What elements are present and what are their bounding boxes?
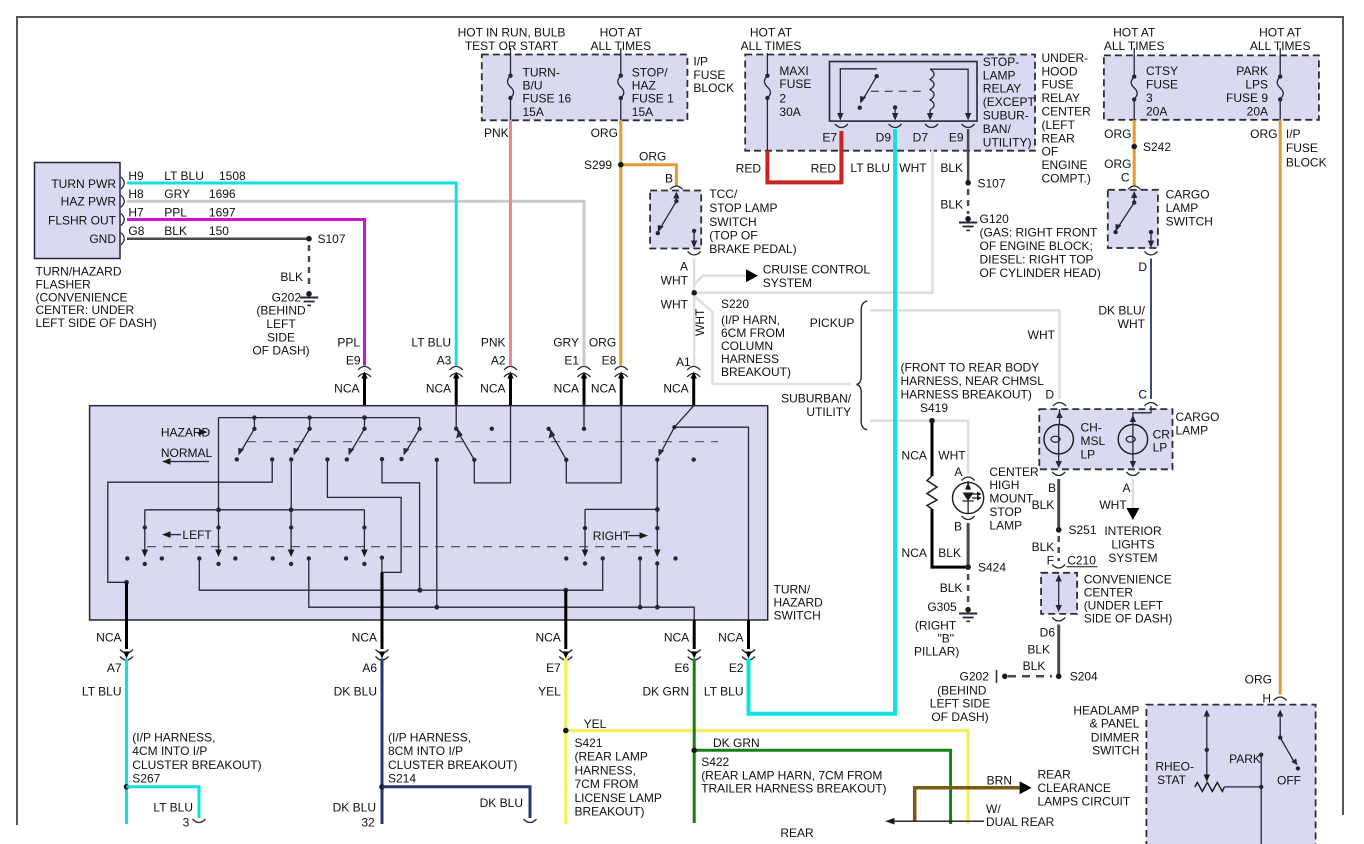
wire BLK lamp B to S424 xyxy=(940,523,1007,605)
wire WHT TCC to junction and cruise control xyxy=(691,259,870,366)
svg-text:RIGHT: RIGHT xyxy=(593,529,631,543)
svg-text:SYSTEM: SYSTEM xyxy=(763,276,812,290)
left contact dots xyxy=(125,556,348,560)
svg-text:PICKUP: PICKUP xyxy=(810,316,855,330)
svg-text:MSL: MSL xyxy=(1081,434,1106,448)
svg-text:TEST OR START: TEST OR START xyxy=(465,39,559,53)
wire WHT junction to S419 branch (S220 path) xyxy=(693,296,851,384)
svg-text:TRAILER HARNESS BREAKOUT): TRAILER HARNESS BREAKOUT) xyxy=(701,782,886,796)
svg-text:TURN/: TURN/ xyxy=(774,582,811,596)
svg-text:"B": "B" xyxy=(938,631,955,645)
svg-text:E7: E7 xyxy=(822,130,837,144)
svg-text:CARGO: CARGO xyxy=(1176,410,1220,424)
svg-text:HOT AT: HOT AT xyxy=(1259,26,1302,40)
svg-text:(LEFT: (LEFT xyxy=(1042,118,1076,132)
svg-text:PPL: PPL xyxy=(337,335,360,349)
svg-text:20A: 20A xyxy=(1247,104,1268,118)
ground G202 (S204) xyxy=(930,659,1052,724)
svg-text:E1: E1 xyxy=(564,354,579,368)
svg-text:ORG: ORG xyxy=(1250,127,1277,141)
svg-text:OFF: OFF xyxy=(1277,774,1301,788)
CHMSL / cargo lamp assembly box xyxy=(1039,387,1219,469)
svg-text:LEFT SIDE OF DASH): LEFT SIDE OF DASH) xyxy=(36,316,157,330)
svg-text:STOP/: STOP/ xyxy=(632,65,668,79)
svg-text:DK BLU/: DK BLU/ xyxy=(1098,303,1145,317)
svg-text:FUSE 1: FUSE 1 xyxy=(632,91,674,105)
wire WHT pickup to CHMSL D xyxy=(870,310,1060,399)
svg-text:UNDER-: UNDER- xyxy=(1042,51,1089,65)
wire DK GRN E6 to S422 xyxy=(691,659,950,841)
svg-text:WHT: WHT xyxy=(1099,498,1127,512)
svg-text:S204: S204 xyxy=(1070,670,1098,684)
wire DK BLU/WHT cargo switch to CHMSL C xyxy=(1098,259,1151,400)
svg-text:NCA: NCA xyxy=(334,382,359,396)
svg-text:FLSHR OUT: FLSHR OUT xyxy=(48,214,117,228)
switch lever 4 xyxy=(399,418,422,462)
ground G120 xyxy=(959,212,1101,280)
wire LT BLU flasher H9 to A3 xyxy=(127,183,456,366)
svg-text:S242: S242 xyxy=(1143,140,1171,154)
svg-text:CENTER: CENTER xyxy=(1084,586,1134,600)
top bus wire xyxy=(219,415,420,551)
svg-text:WHT: WHT xyxy=(693,308,707,336)
svg-text:HAZARD: HAZARD xyxy=(774,595,824,609)
svg-text:GND: GND xyxy=(89,232,116,246)
svg-text:S424: S424 xyxy=(978,560,1006,574)
svg-text:PNK: PNK xyxy=(481,335,506,349)
svg-text:H7: H7 xyxy=(128,206,144,220)
bottom pin connector A7 xyxy=(82,620,133,699)
svg-text:SWITCH: SWITCH xyxy=(1092,744,1139,758)
svg-text:COMPT.): COMPT.) xyxy=(1042,172,1091,186)
switch lever 3 xyxy=(345,418,385,462)
svg-text:15A: 15A xyxy=(632,105,653,119)
bottom pin connector E2 xyxy=(704,620,755,699)
svg-text:BLK: BLK xyxy=(940,198,963,212)
dashed selector line top xyxy=(247,441,718,443)
relay pin connectors E7 D9 D7 E9 xyxy=(736,124,975,176)
svg-text:HARNESS,: HARNESS, xyxy=(575,763,636,777)
svg-text:A2: A2 xyxy=(491,354,506,368)
switch lever 1 xyxy=(235,418,275,462)
svg-text:RELAY: RELAY xyxy=(983,82,1021,96)
svg-text:CRUISE CONTROL: CRUISE CONTROL xyxy=(763,263,871,277)
svg-text:OF CYLINDER HEAD): OF CYLINDER HEAD) xyxy=(980,266,1101,280)
svg-text:WHT: WHT xyxy=(938,449,966,463)
svg-text:E8: E8 xyxy=(602,354,617,368)
svg-text:A: A xyxy=(1122,481,1130,495)
svg-text:A: A xyxy=(954,465,962,479)
svg-text:NCA: NCA xyxy=(902,546,927,560)
svg-text:BRAKE PEDAL): BRAKE PEDAL) xyxy=(709,242,796,256)
pin exits inside box xyxy=(127,572,566,620)
svg-text:ORG: ORG xyxy=(1104,157,1131,171)
svg-text:(I/P HARNESS,: (I/P HARNESS, xyxy=(132,731,215,745)
svg-text:BLK: BLK xyxy=(280,270,303,284)
svg-text:BREAKOUT): BREAKOUT) xyxy=(575,805,645,819)
svg-text:B: B xyxy=(665,171,673,185)
svg-text:WHT: WHT xyxy=(661,298,689,312)
bottom pin connector A6 xyxy=(334,620,389,699)
link wire U4 (A2) xyxy=(474,406,510,483)
wire BLK relay E9 to S107 xyxy=(940,129,1006,214)
svg-text:CR: CR xyxy=(1153,427,1171,441)
rheostat xyxy=(1155,710,1261,792)
svg-text:PNK: PNK xyxy=(484,126,509,140)
resistor NCA S419 to S424 xyxy=(902,423,969,567)
svg-text:CTSY: CTSY xyxy=(1146,64,1178,78)
wire BLK flasher G8 to S107 xyxy=(127,232,346,289)
wire WHT suburban to S419 to lamp A xyxy=(870,361,1044,474)
svg-text:H9: H9 xyxy=(128,169,144,183)
svg-text:S422: S422 xyxy=(701,755,729,769)
svg-text:6CM FROM: 6CM FROM xyxy=(721,326,785,340)
svg-text:20A: 20A xyxy=(1146,104,1167,118)
svg-text:HARNESS: HARNESS xyxy=(721,352,779,366)
svg-text:S267: S267 xyxy=(132,771,160,785)
brace pickup/suburban xyxy=(781,301,867,430)
top pin connector E9 xyxy=(334,335,371,405)
svg-text:HIGH: HIGH xyxy=(989,478,1019,492)
svg-text:G8: G8 xyxy=(128,224,144,238)
svg-text:TURN PWR: TURN PWR xyxy=(51,177,116,191)
svg-text:DK BLU: DK BLU xyxy=(334,685,377,699)
svg-text:E9: E9 xyxy=(949,130,964,144)
svg-text:HOT IN RUN, BULB: HOT IN RUN, BULB xyxy=(458,26,566,40)
svg-text:LAMP: LAMP xyxy=(1166,201,1199,215)
svg-text:C: C xyxy=(1138,387,1147,401)
svg-text:LT BLU: LT BLU xyxy=(411,335,451,349)
svg-text:ENGINE: ENGINE xyxy=(1042,158,1088,172)
svg-text:SWITCH: SWITCH xyxy=(709,215,756,229)
svg-text:BLK: BLK xyxy=(1032,498,1055,512)
svg-text:D6: D6 xyxy=(1040,626,1056,640)
svg-text:HAZ: HAZ xyxy=(632,78,656,92)
switch lever 2 xyxy=(289,418,330,462)
svg-text:HOT AT: HOT AT xyxy=(1113,26,1156,40)
wire ORG fuse 1 to E8, S299 branch to TCC B xyxy=(584,120,676,365)
svg-text:UTILITY): UTILITY) xyxy=(983,135,1032,149)
svg-text:NCA: NCA xyxy=(96,631,121,645)
svg-text:D: D xyxy=(1045,387,1054,401)
svg-text:(UNDER LEFT: (UNDER LEFT xyxy=(1084,599,1164,613)
svg-text:WHT: WHT xyxy=(1028,328,1056,342)
svg-text:S107: S107 xyxy=(978,176,1006,190)
center high mount stop lamp (LED) xyxy=(953,465,1040,534)
svg-text:G202: G202 xyxy=(272,290,302,304)
turn/hazard switch box xyxy=(90,406,824,623)
svg-text:LICENSE LAMP: LICENSE LAMP xyxy=(575,791,662,805)
svg-text:HAZ PWR: HAZ PWR xyxy=(61,195,117,209)
svg-text:BLK: BLK xyxy=(940,161,963,175)
svg-text:DK GRN: DK GRN xyxy=(643,685,690,699)
svg-text:DIESEL: RIGHT TOP: DIESEL: RIGHT TOP xyxy=(980,253,1094,267)
svg-text:ALL TIMES: ALL TIMES xyxy=(741,39,802,53)
svg-text:NCA: NCA xyxy=(718,631,743,645)
svg-text:CENTER: CENTER xyxy=(1042,105,1092,119)
svg-text:NCA: NCA xyxy=(902,449,927,463)
svg-text:WHT: WHT xyxy=(661,273,689,287)
arrow w/ dual rear xyxy=(885,802,1055,829)
svg-text:NORMAL: NORMAL xyxy=(161,446,213,460)
ground G202 (flasher) xyxy=(252,290,318,357)
svg-text:A1: A1 xyxy=(676,355,691,369)
top pin connector E1 xyxy=(553,335,590,405)
svg-text:PARK: PARK xyxy=(1229,752,1261,766)
svg-text:NCA: NCA xyxy=(426,382,451,396)
svg-text:OF: OF xyxy=(1042,145,1059,159)
svg-text:S220: S220 xyxy=(721,297,749,311)
svg-text:HOT AT: HOT AT xyxy=(600,26,643,40)
svg-text:SIDE: SIDE xyxy=(267,330,295,344)
svg-text:E9: E9 xyxy=(346,354,361,368)
fuse CTSY FUSE 3 20A xyxy=(1131,48,1178,120)
svg-text:ORG: ORG xyxy=(589,335,616,349)
bottom pin connector E6 xyxy=(643,620,701,699)
svg-text:NCA: NCA xyxy=(554,382,579,396)
svg-text:I/P: I/P xyxy=(693,54,708,68)
underhood fuse relay center box xyxy=(741,26,1092,186)
svg-text:A6: A6 xyxy=(362,661,377,675)
svg-text:WHT: WHT xyxy=(899,161,927,175)
svg-text:LPS: LPS xyxy=(1245,78,1268,92)
headlamp dimmer switch box xyxy=(1073,703,1315,844)
svg-text:LEFT: LEFT xyxy=(266,317,296,331)
dimmer H connector and switch xyxy=(1229,697,1301,844)
svg-text:RHEO-: RHEO- xyxy=(1155,760,1194,774)
svg-text:FUSE 16: FUSE 16 xyxy=(523,91,572,105)
svg-text:BLK: BLK xyxy=(164,224,187,238)
svg-text:BLK: BLK xyxy=(1027,643,1050,657)
wire DK BLU A6 to S214 xyxy=(333,659,537,830)
svg-text:CONVENIENCE: CONVENIENCE xyxy=(1084,573,1172,587)
svg-text:D9: D9 xyxy=(876,130,892,144)
relay U1 stop-lamp relay xyxy=(830,55,1036,149)
svg-text:FUSE: FUSE xyxy=(693,68,725,82)
svg-text:(I/P HARNESS,: (I/P HARNESS, xyxy=(388,731,471,745)
wire PNK fuse 16 to A2 xyxy=(484,120,511,365)
svg-text:ORG: ORG xyxy=(639,150,666,164)
svg-text:D7: D7 xyxy=(913,130,929,144)
svg-text:LP: LP xyxy=(1081,447,1096,461)
RIGHT label xyxy=(593,529,648,543)
svg-text:LEFT SIDE: LEFT SIDE xyxy=(930,697,990,711)
svg-text:A: A xyxy=(680,259,688,273)
svg-text:CLEARANCE: CLEARANCE xyxy=(1038,781,1111,795)
cargo lamp switch xyxy=(1108,186,1213,274)
svg-text:B/U: B/U xyxy=(523,78,543,92)
svg-text:8CM INTO I/P: 8CM INTO I/P xyxy=(388,744,463,758)
svg-text:PARK: PARK xyxy=(1236,64,1268,78)
svg-text:COLUMN: COLUMN xyxy=(721,339,773,353)
fuse PARK LPS FUSE 9 20A xyxy=(1226,48,1283,120)
svg-text:RED: RED xyxy=(736,162,762,176)
svg-text:MAXI: MAXI xyxy=(779,64,808,78)
link wire U1 to A7 xyxy=(108,459,272,584)
LEFT label xyxy=(162,528,212,542)
svg-text:NCA: NCA xyxy=(480,382,505,396)
svg-text:RELAY: RELAY xyxy=(1042,91,1080,105)
svg-text:LAMPS CIRCUIT: LAMPS CIRCUIT xyxy=(1038,794,1131,808)
svg-text:HEADLAMP: HEADLAMP xyxy=(1073,703,1139,717)
svg-text:BRN: BRN xyxy=(987,773,1012,787)
lamp CR LP xyxy=(1118,406,1170,468)
svg-text:LP: LP xyxy=(1153,441,1168,455)
svg-text:DUAL REAR: DUAL REAR xyxy=(986,815,1055,829)
svg-text:NCA: NCA xyxy=(664,631,689,645)
svg-text:CH-: CH- xyxy=(1081,420,1102,434)
svg-text:YEL: YEL xyxy=(538,685,561,699)
svg-text:(BEHIND: (BEHIND xyxy=(937,683,987,697)
svg-text:W/: W/ xyxy=(986,802,1001,816)
wire ORG ctsy fuse to cargo switch, S242 xyxy=(1104,120,1171,186)
svg-text:INTERIOR: INTERIOR xyxy=(1104,524,1162,538)
mid bus right xyxy=(585,460,660,551)
svg-text:S299: S299 xyxy=(584,158,612,172)
svg-text:STOP: STOP xyxy=(989,505,1021,519)
convenience center box xyxy=(1040,573,1173,640)
svg-text:LT BLU: LT BLU xyxy=(704,685,744,699)
top pin connector A1 xyxy=(663,355,700,405)
I/P fuse block (right) box xyxy=(1104,26,1327,170)
wire GRY flasher H8 to E1 xyxy=(127,201,584,365)
top pin connector E8 xyxy=(589,335,628,405)
fuse STOP/HAZ FUSE 1 15A xyxy=(618,48,674,120)
svg-text:I/P: I/P xyxy=(1286,127,1301,141)
svg-text:4CM INTO I/P: 4CM INTO I/P xyxy=(132,744,207,758)
svg-text:E6: E6 xyxy=(675,661,690,675)
svg-text:CLUSTER BREAKOUT): CLUSTER BREAKOUT) xyxy=(388,758,517,772)
ground G305 xyxy=(914,600,977,659)
svg-text:GRY: GRY xyxy=(164,187,190,201)
bottom pin connector E7 xyxy=(535,620,572,699)
svg-text:PPL: PPL xyxy=(164,206,187,220)
svg-text:30A: 30A xyxy=(779,105,800,119)
wire RED maxi fuse to relay E7 xyxy=(767,131,841,182)
svg-text:(EXCEPT: (EXCEPT xyxy=(983,95,1036,109)
svg-text:A3: A3 xyxy=(437,354,452,368)
svg-text:UTILITY: UTILITY xyxy=(806,405,851,419)
svg-text:1508: 1508 xyxy=(219,169,246,183)
svg-text:ORG: ORG xyxy=(1104,127,1131,141)
svg-text:NCA: NCA xyxy=(352,631,377,645)
svg-text:LAMP: LAMP xyxy=(1176,424,1209,438)
svg-text:(REAR LAMP: (REAR LAMP xyxy=(575,750,648,764)
svg-text:LT BLU: LT BLU xyxy=(850,161,890,175)
svg-text:C210: C210 xyxy=(1067,553,1096,567)
svg-text:(RIGHT: (RIGHT xyxy=(915,618,957,632)
TCC/stop lamp switch xyxy=(650,186,797,312)
svg-text:B: B xyxy=(1048,481,1056,495)
svg-text:DK BLU: DK BLU xyxy=(480,796,523,810)
wire YEL E7 to S421 xyxy=(563,659,968,825)
wire contact to lower bus (x437) xyxy=(435,458,439,608)
svg-text:1696: 1696 xyxy=(209,187,236,201)
svg-text:HARNESS BREAKOUT): HARNESS BREAKOUT) xyxy=(901,388,1032,402)
svg-text:D: D xyxy=(1138,260,1147,274)
fuse MAXI FUSE 2 30A xyxy=(764,53,811,151)
switch lever 5 (A3) xyxy=(454,406,494,462)
svg-text:2: 2 xyxy=(779,91,786,105)
svg-text:& PANEL: & PANEL xyxy=(1090,717,1140,731)
svg-text:SWITCH: SWITCH xyxy=(774,608,821,622)
svg-text:S107: S107 xyxy=(318,232,346,246)
switch lever 6 (E1) xyxy=(546,406,586,462)
svg-text:SIDE OF DASH): SIDE OF DASH) xyxy=(1084,611,1173,625)
svg-text:(I/P HARN,: (I/P HARN, xyxy=(721,313,780,327)
right contact dots xyxy=(564,556,678,560)
svg-text:LIGHTS: LIGHTS xyxy=(1111,538,1154,552)
fuse TURN-B/U FUSE 16 15A xyxy=(508,48,572,120)
I/P fuse block (left) box xyxy=(458,26,734,121)
svg-text:BREAKOUT): BREAKOUT) xyxy=(721,365,791,379)
routing wire y607 to E6 xyxy=(309,558,694,620)
svg-text:DIMMER: DIMMER xyxy=(1091,730,1140,744)
svg-text:H: H xyxy=(1262,691,1271,705)
svg-text:OF DASH): OF DASH) xyxy=(252,344,309,358)
svg-text:(TOP OF: (TOP OF xyxy=(709,229,757,243)
turn/hazard flasher box xyxy=(35,163,247,330)
svg-text:CARGO: CARGO xyxy=(1166,187,1210,201)
svg-text:BLK: BLK xyxy=(1023,659,1046,673)
svg-text:G305: G305 xyxy=(927,600,957,614)
wire WHT to interior lights system xyxy=(1104,479,1162,565)
svg-text:STAT: STAT xyxy=(1157,773,1187,787)
svg-text:SWITCH: SWITCH xyxy=(1166,214,1213,228)
svg-text:32: 32 xyxy=(361,816,375,830)
svg-text:SUBURBAN/: SUBURBAN/ xyxy=(781,391,852,405)
svg-text:WHT: WHT xyxy=(1118,317,1146,331)
svg-text:TCC/: TCC/ xyxy=(709,187,738,201)
svg-text:OF ENGINE BLOCK;: OF ENGINE BLOCK; xyxy=(980,239,1093,253)
svg-text:NCA: NCA xyxy=(535,631,560,645)
svg-text:DK GRN: DK GRN xyxy=(713,736,760,750)
svg-text:S419: S419 xyxy=(920,401,948,415)
svg-text:STOP LAMP: STOP LAMP xyxy=(709,201,777,215)
svg-text:(FRONT TO REAR BODY: (FRONT TO REAR BODY xyxy=(901,361,1040,375)
svg-text:REAR: REAR xyxy=(1038,768,1072,782)
svg-text:(GAS: RIGHT FRONT: (GAS: RIGHT FRONT xyxy=(980,226,1098,240)
left levers with arrows xyxy=(142,525,368,566)
svg-text:TURN-: TURN- xyxy=(523,65,560,79)
svg-text:SYSTEM: SYSTEM xyxy=(1108,551,1157,565)
connector B and A below CHMSL xyxy=(1032,472,1140,512)
hazard/normal labels xyxy=(161,425,213,464)
svg-text:LEFT: LEFT xyxy=(182,528,212,542)
svg-text:ORG: ORG xyxy=(591,126,618,140)
svg-text:FUSE 9: FUSE 9 xyxy=(1226,91,1268,105)
svg-text:LAMP: LAMP xyxy=(989,518,1022,532)
svg-text:E7: E7 xyxy=(546,661,561,675)
svg-text:(BEHIND: (BEHIND xyxy=(256,304,306,318)
wire BLK B to S251 to C210 xyxy=(1032,479,1098,568)
right levers with arrows xyxy=(582,526,661,566)
svg-text:BAN/: BAN/ xyxy=(983,122,1012,136)
svg-text:REAR: REAR xyxy=(780,826,814,840)
wire BLK D6 to S204 xyxy=(1027,625,1098,684)
link wire U2 xyxy=(327,459,401,572)
svg-text:LAMP: LAMP xyxy=(983,68,1016,82)
svg-text:G120: G120 xyxy=(980,212,1010,226)
svg-text:150: 150 xyxy=(209,224,229,238)
dashed selector line bottom xyxy=(147,546,654,548)
svg-text:BLK: BLK xyxy=(938,546,961,560)
svg-text:YEL: YEL xyxy=(584,717,607,731)
lamp CH-MSL LP xyxy=(1044,409,1106,468)
wire BRN to rear clearance lamps xyxy=(915,768,1131,822)
svg-text:C: C xyxy=(1121,170,1130,184)
mid bus left xyxy=(145,507,365,551)
